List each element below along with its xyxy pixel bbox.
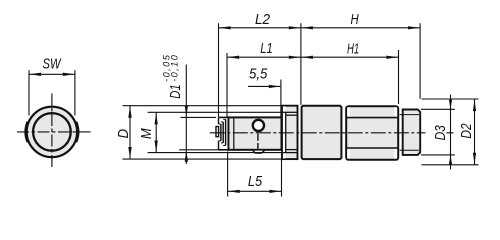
dimension H: line (301, 27, 420, 29)
dimension D1: extension line bottom (179, 149, 218, 151)
dimension D: extension line top (123, 105, 283, 107)
dimension D2: extension line bottom (422, 164, 479, 166)
svg-text:M: M (139, 128, 155, 139)
nose: step shoulders top (219, 123, 221, 125)
hex chamfer sliver top-left (347, 107, 350, 117)
svg-text:D1: D1 (167, 84, 184, 98)
end view: hex corner arc right (76, 122, 78, 143)
extension line x=420.1 (H right / stud face) (419, 23, 421, 99)
dimension D: extension line bottom (123, 158, 283, 160)
nose: bottom edge (218, 149, 228, 151)
dimension L1: line (227, 56, 301, 58)
dimension D2: extension line top (422, 98, 479, 100)
dimension D1: label with tolerance (162, 54, 184, 99)
dimension D3: extension line bottom (421, 154, 455, 156)
dimension D3: extension line top (421, 108, 455, 110)
dimension SW: extension line left (28, 70, 30, 115)
end view: outer circle (body OD) (27, 107, 77, 157)
svg-text:H1: H1 (347, 40, 359, 57)
collar chamfer line bottom 2 (282, 152, 297, 154)
dimension 5,5: extension line right (280, 80, 282, 117)
svg-text:5,5: 5,5 (249, 65, 268, 82)
dimension H1: line (301, 56, 399, 58)
nose: step line 3 (225, 119, 227, 145)
end view: body disc fill (26, 105, 79, 158)
extension line x=218.5 (L2 / nose face) (218, 23, 220, 117)
side view: centerline (210, 132, 426, 134)
sleeve body chamfer line (233, 118, 235, 150)
svg-text:D: D (115, 129, 131, 138)
hex section body (346, 106, 398, 160)
dimension 5,5: line (248, 85, 280, 87)
nose: left face upper (218, 117, 220, 124)
stud thread core line bottom (400, 149, 419, 151)
nose: white interior (219, 117, 228, 149)
end view: centerline horizontal (17, 131, 93, 133)
svg-text:D3: D3 (432, 125, 448, 141)
dimension D2: line (474, 99, 476, 165)
end view: inner circle (pin bore) (33, 113, 71, 151)
svg-text:L1: L1 (260, 39, 272, 56)
collar (nut) outline (282, 106, 297, 159)
hex flat line bottom (346, 147, 398, 149)
extension line x=398.5 upper (H1 right) (398, 50, 400, 104)
collar chamfer line top 2 (286, 114, 298, 116)
centerline tick at D3 (447, 132, 454, 134)
hex chamfer sliver bottom-right (394, 149, 397, 159)
hex chamfer sliver bottom-left (347, 149, 350, 159)
hidden line below hole (257, 134, 259, 149)
dimension L5: extension line right (281, 152, 283, 197)
collar washer strip (283, 106, 286, 158)
cross hole circle (253, 120, 264, 131)
extension line x=300.9 (L2-H boundary) (300, 23, 302, 105)
ball tip at bottom of body (252, 150, 264, 153)
nose: step shoulders bottom (219, 140, 221, 142)
dimension L5: line (228, 190, 282, 192)
end view: hex corner arc left (25, 122, 27, 143)
collar chamfer line bottom 1 (286, 149, 298, 151)
dimension D3: line (450, 95, 452, 170)
cylinder section D (302, 106, 342, 159)
dimension L2: line (219, 27, 301, 29)
svg-text:H: H (351, 11, 360, 28)
dimension L5: extension line left (227, 152, 229, 197)
dimension D1: line (185, 65, 187, 165)
stud thread core line top (400, 114, 419, 116)
hex chamfer sliver top-right (394, 107, 397, 117)
dimension SW: dimension line (29, 73, 75, 75)
collar inner vertical line (285, 112, 287, 152)
extension line x=227.0 (L1 / body left face) (226, 53, 228, 117)
end view: centerline vertical (51, 94, 53, 169)
hex flat line top (346, 117, 398, 119)
nose: top edge (218, 116, 228, 118)
svg-text:L2: L2 (255, 11, 270, 28)
nose: tip pin (216, 127, 219, 137)
nose: left face lower (218, 141, 220, 150)
dimension M: line (155, 112, 157, 152)
svg-text:-0,10: -0,10 (169, 54, 179, 82)
dimension D1: extension line top (181, 116, 217, 118)
svg-text:SW: SW (43, 55, 63, 72)
dimension M: extension line bottom (148, 152, 282, 154)
sleeve body (228, 117, 281, 149)
dimension M: extension line top (148, 111, 282, 113)
svg-text:D2: D2 (458, 123, 474, 139)
nose: step line 2 (222, 122, 224, 143)
collar chamfer line top 1 (282, 111, 297, 113)
nose: step line 1 (220, 124, 222, 141)
threaded stud D3 (403, 110, 421, 155)
dimension D: line (129, 106, 131, 159)
dimension SW: extension line right (74, 70, 76, 115)
svg-text:L5: L5 (248, 173, 263, 189)
